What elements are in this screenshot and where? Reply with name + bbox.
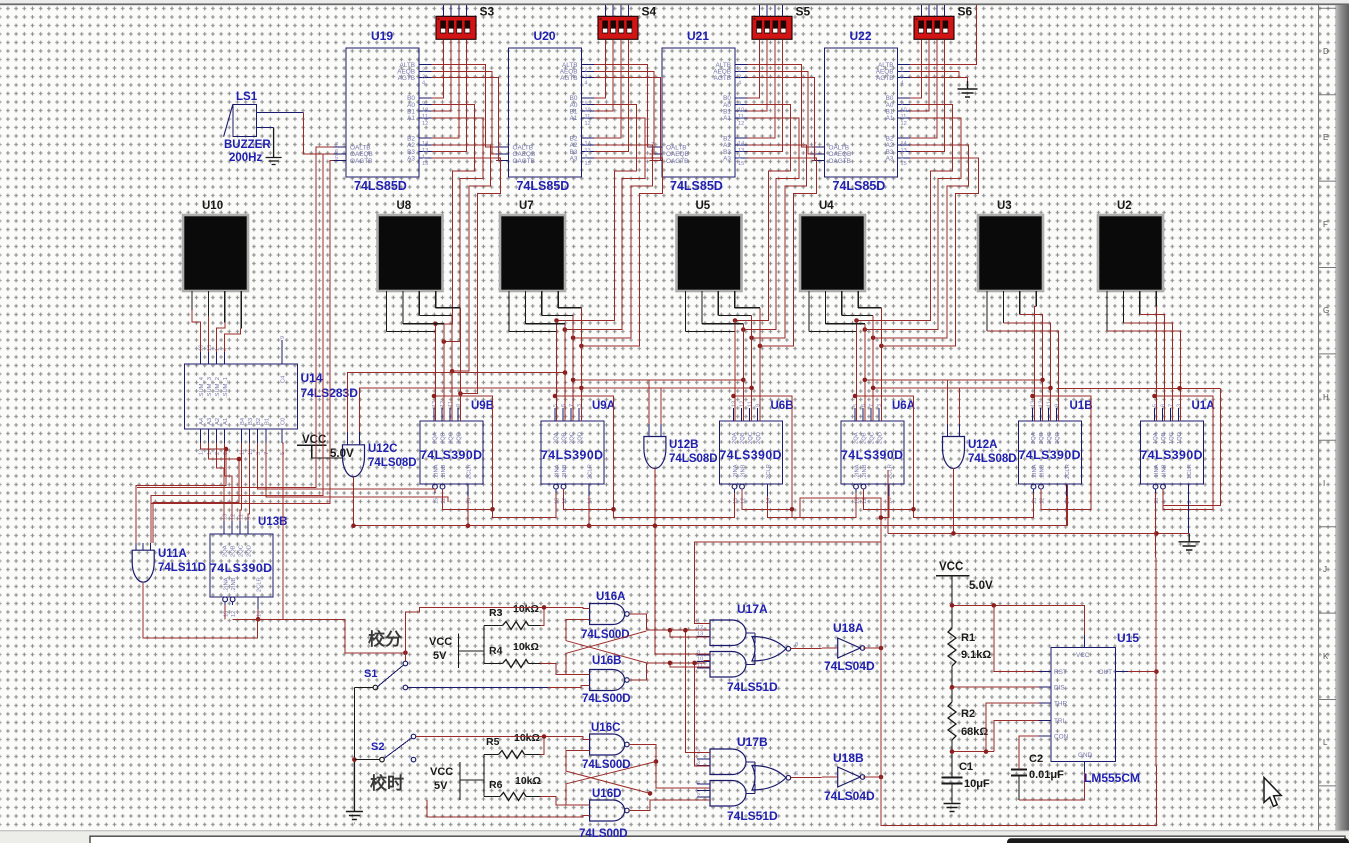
svg-text:3: 3 <box>256 452 262 455</box>
svg-text:7: 7 <box>569 404 575 407</box>
svg-text:OAGTB: OAGTB <box>829 158 851 165</box>
wire U12C input2 up <box>360 388 582 432</box>
svg-text:2: 2 <box>1187 501 1193 504</box>
junction rail x1156 OUT <box>1154 669 1159 674</box>
svg-text:74LS00D: 74LS00D <box>579 828 628 840</box>
svg-text:2QD: 2QD <box>247 545 253 557</box>
svg-text:.SUM_2: .SUM_2 <box>215 377 221 398</box>
junction A2 stage0 <box>450 369 455 374</box>
svg-text:11: 11 <box>901 114 907 120</box>
wire U19 output 2 cascade to U20 <box>432 78 499 161</box>
svg-text:4: 4 <box>223 348 229 351</box>
svg-text:S4: S4 <box>642 5 657 19</box>
wire display pin 1 of pair 2 jog <box>686 331 736 333</box>
svg-text:D: D <box>1323 47 1329 56</box>
wire buzzer to U19 OAEQB <box>303 113 333 154</box>
wire U12C input1 up <box>348 373 566 433</box>
wire counter column 2 of pair 1 <box>564 324 566 421</box>
gate U16A 74LS00D <box>590 604 625 625</box>
cross wire latch1 a <box>566 631 646 653</box>
wire display pin 3 of pair 2 jog <box>718 315 751 317</box>
wire S2 common left <box>354 759 379 761</box>
svg-text:11: 11 <box>1047 401 1053 407</box>
wire U14 SUM1 to U13B pin2 <box>225 443 232 521</box>
svg-text:12: 12 <box>901 121 907 127</box>
DIP switch S5 <box>752 16 792 39</box>
svg-text:2QB: 2QB <box>231 545 237 557</box>
wire latch1 outA down to U17B pin2 <box>685 630 710 752</box>
svg-text:74LS51D: 74LS51D <box>727 809 778 823</box>
svg-text:C0: C0 <box>281 418 287 425</box>
wire U22 AGTB to ground <box>910 77 966 79</box>
wire S5 pole 4 to B3 input <box>748 39 783 151</box>
svg-text:OAGTB: OAGTB <box>350 158 372 165</box>
gate U16D 74LS00D <box>590 800 625 821</box>
wire R2 to C1 junction <box>951 740 953 766</box>
junction A1 stage2 <box>741 327 746 332</box>
svg-text:9: 9 <box>422 101 425 107</box>
bus wire y525 <box>354 484 1068 526</box>
junction row388 U6A <box>871 386 876 391</box>
svg-text:CON: CON <box>1054 733 1069 740</box>
junction S1 riser <box>403 651 408 656</box>
DIP switch S3 <box>436 16 476 39</box>
svg-text:U8: U8 <box>397 200 412 212</box>
wire U9A 2CLR to bus <box>588 496 590 526</box>
svg-text:U6A: U6A <box>892 400 915 412</box>
svg-text:4: 4 <box>585 81 588 87</box>
svg-text:2QB: 2QB <box>862 432 868 444</box>
wire counter column 4 of pair 0 <box>459 308 461 421</box>
svg-text:74LS85D: 74LS85D <box>517 179 570 193</box>
wire counter column 2 of pair 2 <box>742 324 744 421</box>
svg-text:11: 11 <box>422 114 428 120</box>
inverter U18A 74LS04D <box>838 638 861 658</box>
svg-text:2CLR: 2CLR <box>257 577 263 592</box>
svg-text:.2INB: .2INB <box>741 464 747 479</box>
junction U6B QA <box>731 394 736 399</box>
svg-text:U11A: U11A <box>158 548 187 560</box>
wire U12C output down to bus <box>353 477 355 526</box>
svg-text:6: 6 <box>561 404 567 407</box>
svg-text:1: 1 <box>215 348 221 351</box>
svg-text:3: 3 <box>585 74 588 80</box>
svg-text:74LS51D: 74LS51D <box>727 680 778 694</box>
svg-text:.SUM_4: .SUM_4 <box>199 376 205 398</box>
wire U19 A2 to counter net <box>432 145 491 371</box>
inverter U18B 74LS04D <box>838 767 861 787</box>
junction U12A in1 <box>1040 378 1045 383</box>
wire U20 A2 to counter net <box>573 145 652 338</box>
svg-text:12: 12 <box>230 514 236 520</box>
junction U12A in2 <box>1048 386 1053 391</box>
wire U13B 2CLR down <box>257 609 259 619</box>
svg-text:2QC: 2QC <box>748 432 754 444</box>
svg-text:S5: S5 <box>796 5 811 19</box>
svg-text:74LS390D: 74LS390D <box>841 448 903 462</box>
junction down feed A <box>683 628 688 633</box>
svg-text:14: 14 <box>467 498 473 504</box>
wire U16A output cross <box>629 614 646 630</box>
svg-text:15: 15 <box>585 161 591 167</box>
wire display U2 pin 1 to counter U1A <box>1107 331 1181 421</box>
resistor R5 <box>499 751 525 759</box>
wire R3 to U16A input <box>541 607 545 625</box>
wire net row 388 to U6A column <box>873 387 959 389</box>
svg-text:6: 6 <box>335 149 338 155</box>
wire display pin 2 of pair 1 jog <box>525 323 564 325</box>
wire net row 380 to U6B column <box>649 379 743 381</box>
junction U12C in2 <box>579 386 584 391</box>
svg-text:5V: 5V <box>434 780 448 792</box>
wire U6B QA feedback loop <box>734 396 793 509</box>
gate U11A 74LS11D <box>132 550 154 582</box>
wire U21 A0 to counter net <box>735 105 790 321</box>
wire R4 to U16B input <box>541 664 590 675</box>
svg-text:68kΩ: 68kΩ <box>961 726 988 738</box>
junction rail x1156 on y533 <box>1154 531 1159 536</box>
svg-text:9: 9 <box>246 517 252 520</box>
svg-text:13: 13 <box>901 148 907 154</box>
svg-text:13: 13 <box>422 148 428 154</box>
svg-text:2QC: 2QC <box>1047 432 1053 444</box>
display U3 <box>978 215 1043 291</box>
wire bottom run to U16D <box>426 800 428 817</box>
junction THR join <box>984 749 989 754</box>
svg-text:1: 1 <box>738 155 741 161</box>
display U4 <box>800 215 865 291</box>
wire stubs above S6 <box>921 5 923 16</box>
junction U9A INA <box>490 507 495 512</box>
svg-text:9: 9 <box>1055 404 1061 407</box>
wire S6 pole 4 to B3 input <box>910 39 945 151</box>
svg-text:U20: U20 <box>534 29 556 43</box>
svg-text:R2: R2 <box>961 708 975 720</box>
svg-text:C1: C1 <box>959 761 973 773</box>
cross stub latch2 a2 <box>566 784 590 806</box>
svg-text:4: 4 <box>738 81 741 87</box>
wire U20 output 0 cascade to U21 <box>594 65 650 148</box>
svg-text:13: 13 <box>222 514 228 520</box>
svg-text:VCC: VCC <box>429 636 452 648</box>
wire net row 388 to U6B column <box>661 387 752 389</box>
junction U6A CLR rail <box>879 515 884 520</box>
svg-text:LM555CM: LM555CM <box>1084 771 1140 785</box>
wire U22 A2 to counter net <box>873 145 968 338</box>
wire display U2 pin 4 to counter U1A <box>1155 307 1157 422</box>
svg-text:13: 13 <box>1031 401 1037 407</box>
counter U1B 74LS390D <box>1019 421 1082 484</box>
junction down feed B <box>692 661 697 666</box>
svg-text:9: 9 <box>456 404 462 407</box>
svg-text:2QA: 2QA <box>732 432 738 444</box>
wire display pin 4 of pair 0 jog <box>436 307 461 309</box>
svg-text:校分: 校分 <box>368 629 402 649</box>
svg-text:U2: U2 <box>1117 200 1132 212</box>
svg-text:.2INB: .2INB <box>231 577 237 592</box>
counter U1A 74LS390D <box>1141 421 1204 484</box>
svg-text:10: 10 <box>697 657 703 663</box>
junction U13B bottom <box>256 617 261 622</box>
gate U16C 74LS00D <box>590 734 625 755</box>
wire TRI down <box>994 720 1039 751</box>
svg-text:74LS390D: 74LS390D <box>1019 448 1081 462</box>
wire U14 B1 right <box>266 443 448 502</box>
wire S1 up contact to latch <box>405 607 589 661</box>
svg-text:74LS85D: 74LS85D <box>833 179 886 193</box>
svg-text:11: 11 <box>738 114 744 120</box>
wire counter column 2 of pair 0 <box>443 324 445 421</box>
svg-text:2: 2 <box>422 68 425 74</box>
wire display pin 2 of pair 2 jog <box>702 323 743 325</box>
svg-text:10kΩ: 10kΩ <box>515 775 541 787</box>
svg-text:1QD: 1QD <box>1177 432 1183 444</box>
svg-text:0.01μF: 0.01μF <box>1029 769 1064 781</box>
wire U19 output 0 cascade to U20 <box>432 65 497 148</box>
svg-text:J: J <box>1323 565 1327 574</box>
counter U9B 74LS390D <box>420 421 483 484</box>
wire S5 pole 1 to B0 input <box>748 39 760 98</box>
svg-text:U17B: U17B <box>737 735 768 749</box>
wire U21 output 1 cascade to U22 <box>748 71 813 154</box>
svg-text:U19: U19 <box>371 29 393 43</box>
svg-text:2QA: 2QA <box>223 545 229 557</box>
wire U6B 2CLR down right <box>768 496 881 542</box>
svg-text:7: 7 <box>335 142 338 148</box>
svg-text:6: 6 <box>795 771 798 777</box>
wire U14 B2 to U9B 2INA <box>258 443 435 492</box>
svg-text:THR: THR <box>1054 700 1068 707</box>
svg-text:A3: A3 <box>407 155 415 162</box>
wire display U3 pin 3 to counter U1B <box>1020 315 1043 421</box>
junction U1B QA <box>1030 394 1035 399</box>
junction latch2 outC <box>654 759 659 764</box>
wire U9B 2CLR to bus <box>467 496 469 526</box>
svg-text:2QD: 2QD <box>878 432 884 444</box>
svg-text:14: 14 <box>257 611 263 617</box>
junction row380 U6A <box>863 378 868 383</box>
svg-text:11: 11 <box>585 114 591 120</box>
svg-text:12: 12 <box>440 401 446 407</box>
svg-text:.2INB: .2INB <box>1040 464 1046 479</box>
svg-text:AGTB: AGTB <box>560 75 577 82</box>
svg-text:U14: U14 <box>301 371 323 385</box>
svg-text:U21: U21 <box>687 29 709 43</box>
svg-text:10kΩ: 10kΩ <box>514 732 540 744</box>
svg-text:.2INB: .2INB <box>441 464 447 479</box>
wire U19 cascade input 0 from left <box>137 147 334 487</box>
svg-text:OAGTB: OAGTB <box>513 158 535 165</box>
svg-text:15: 15 <box>901 161 907 167</box>
wire S6 pole 1 to B0 input <box>910 39 922 98</box>
svg-text:U3: U3 <box>997 200 1012 212</box>
wire U20 A3 to counter net <box>581 158 662 346</box>
right scrollbar <box>1336 5 1349 843</box>
wire counter column 4 of pair 1 <box>580 308 582 421</box>
svg-text:U22: U22 <box>850 29 872 43</box>
wire counter column 4 of pair 3 <box>880 308 882 421</box>
svg-text:13: 13 <box>738 148 744 154</box>
svg-text:74LS04D: 74LS04D <box>824 789 875 803</box>
svg-text:A2: A2 <box>215 418 221 425</box>
switch S2 <box>380 757 385 762</box>
comparator U21 74LS85D <box>662 48 735 177</box>
svg-text:10: 10 <box>422 108 428 114</box>
junction U6B INA <box>611 507 616 512</box>
display U8 <box>378 215 443 291</box>
svg-text:R5: R5 <box>486 736 500 748</box>
wire counter column 3 of pair 0 <box>451 316 453 421</box>
wire display U2 pin 3 to counter U1A <box>1140 315 1165 421</box>
wire U21 output 2 cascade to U22 <box>748 78 815 161</box>
junction U9B QA <box>432 394 437 399</box>
svg-text:2QD: 2QD <box>578 432 584 444</box>
svg-text:15: 15 <box>224 611 230 617</box>
wire U16B output cross <box>629 663 646 680</box>
wire display pin 1 of pair 1 jog <box>509 331 557 333</box>
rail wire x881 <box>881 542 1157 825</box>
svg-text:2: 2 <box>738 68 741 74</box>
wire counter column 1 of pair 2 <box>734 321 736 422</box>
cross stub latch1 b2 <box>566 620 590 642</box>
junction A0 stage3 <box>854 318 859 323</box>
svg-text:5.0V: 5.0V <box>969 580 993 592</box>
svg-text:U17A: U17A <box>737 602 768 616</box>
svg-text:A1: A1 <box>407 115 415 122</box>
svg-text:1QA: 1QA <box>1153 432 1159 444</box>
junction U9A QA <box>553 394 558 399</box>
junction U12B in1 <box>571 378 576 383</box>
svg-text:2QA: 2QA <box>854 432 860 444</box>
wire U19 A1 to counter net <box>432 118 483 342</box>
svg-text:B1: B1 <box>264 418 270 425</box>
svg-text:74LS00D: 74LS00D <box>581 629 630 641</box>
wire U19 A3 to counter net <box>432 158 501 393</box>
wire U16C output cross <box>629 745 710 789</box>
svg-text:5: 5 <box>697 792 700 798</box>
svg-text:.2INB: .2INB <box>862 464 868 479</box>
wire display pin 4 of pair 1 jog <box>558 307 581 309</box>
svg-text:12: 12 <box>562 498 568 504</box>
svg-text:10: 10 <box>738 108 744 114</box>
svg-text:11: 11 <box>748 401 754 407</box>
wire U14 SUM2 to U13B pin1 <box>217 443 225 521</box>
wire latch1 outB to U17A pin10 <box>646 661 710 663</box>
svg-text:74LS390D: 74LS390D <box>420 448 482 462</box>
wire U12A input2 up <box>960 388 1051 424</box>
wire U19 cascade input 2 from left <box>151 161 334 504</box>
svg-text:10: 10 <box>901 108 907 114</box>
svg-text:U16B: U16B <box>592 655 621 667</box>
wire U12A output down <box>953 468 955 533</box>
svg-text:U7: U7 <box>519 200 534 212</box>
wire net row 380 to U6A column <box>865 379 948 381</box>
svg-text:9: 9 <box>697 650 700 656</box>
svg-text:4: 4 <box>1162 501 1168 504</box>
wire display pin 1 of pair 0 jog <box>387 331 436 333</box>
svg-text:12: 12 <box>741 498 747 504</box>
svg-text:2QB: 2QB <box>1039 432 1045 444</box>
svg-text:10μF: 10μF <box>964 778 990 790</box>
svg-text:2QC: 2QC <box>570 432 576 444</box>
bottom white panel <box>90 836 1345 843</box>
capacitor C1 <box>942 776 963 778</box>
comparator U19 74LS85D <box>346 48 419 177</box>
ground below S1 S2 <box>346 760 363 823</box>
svg-text:2: 2 <box>901 68 904 74</box>
svg-text:S6: S6 <box>958 5 973 19</box>
svg-text:U16A: U16A <box>596 591 625 603</box>
svg-text:U9B: U9B <box>471 400 494 412</box>
wire U13B bottom run right <box>233 619 406 653</box>
svg-text:12: 12 <box>231 611 237 617</box>
svg-text:A4: A4 <box>199 417 205 425</box>
svg-text:U12C: U12C <box>368 443 397 455</box>
svg-text:2CLR: 2CLR <box>766 464 772 479</box>
svg-text:VCC: VCC <box>430 766 453 778</box>
svg-text:4: 4 <box>697 781 700 787</box>
svg-text:1: 1 <box>585 155 588 161</box>
wire DIS tap <box>952 686 1039 688</box>
svg-text:74LS08D: 74LS08D <box>368 457 417 469</box>
wire U17A out to U18A <box>791 647 838 650</box>
svg-text:R6: R6 <box>489 779 503 791</box>
wire S3 pole 2 to B1 input <box>432 39 452 111</box>
svg-text:2QC: 2QC <box>449 432 455 444</box>
svg-text:74LS11D: 74LS11D <box>158 562 206 574</box>
wire U6B 2INA left <box>614 493 735 518</box>
wire counter column 4 of pair 2 <box>759 308 761 421</box>
svg-text:U6B: U6B <box>771 400 794 412</box>
wire U22 A0 to counter net <box>857 105 953 321</box>
wire TRI THR to C1 <box>952 751 994 753</box>
svg-text:11: 11 <box>448 401 454 407</box>
display U2 <box>1098 215 1163 291</box>
wire U12A input1 up <box>948 380 1043 424</box>
svg-text:1QB: 1QB <box>1161 432 1167 444</box>
timer U15 LM555CM <box>1051 647 1116 761</box>
svg-text:200Hz: 200Hz <box>229 152 262 164</box>
junction U6A INA <box>790 507 795 512</box>
resistor R2 <box>948 702 956 740</box>
svg-text:A3: A3 <box>723 155 731 162</box>
wire S3 pole 3 to B2 input <box>432 39 459 138</box>
wire display U3 pin 4 to counter U1B <box>1035 307 1037 422</box>
svg-text:10kΩ: 10kΩ <box>513 641 539 653</box>
comparator U20 74LS85D <box>509 48 582 177</box>
svg-text:74LS08D: 74LS08D <box>669 453 718 465</box>
svg-text:S1: S1 <box>364 668 377 680</box>
svg-text:7: 7 <box>869 404 875 407</box>
svg-text:C4: C4 <box>281 375 287 383</box>
wire U22 AEQB right <box>910 71 959 77</box>
svg-text:B3: B3 <box>248 418 254 425</box>
display U10 pins <box>191 291 193 310</box>
svg-text:74LS85D: 74LS85D <box>354 179 407 193</box>
svg-text:12: 12 <box>862 498 868 504</box>
wire U13B 2INA down <box>224 605 226 619</box>
svg-text:2QA: 2QA <box>433 432 439 444</box>
junction U1A col3 on QD run <box>1177 386 1182 391</box>
junction U1B INA <box>911 507 916 512</box>
svg-text:2CLR: 2CLR <box>588 464 594 479</box>
svg-text:15: 15 <box>248 449 254 455</box>
wire VCC line to U15 <box>952 605 1084 635</box>
svg-text:A1: A1 <box>223 418 229 425</box>
svg-text:.2INA: .2INA <box>434 464 440 479</box>
svg-text:5: 5 <box>335 156 338 162</box>
wire counter column 1 of pair 1 <box>556 321 558 422</box>
